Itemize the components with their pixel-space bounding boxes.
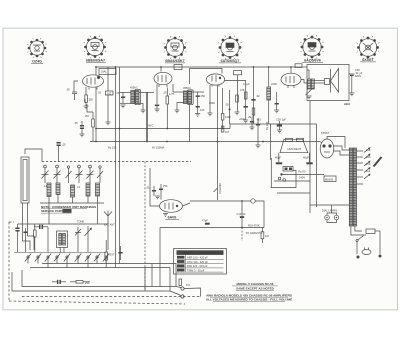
wire pulley to corner [255,201,264,228]
svg-text:C28 1µF: C28 1µF [276,118,286,122]
coil L2 [56,183,60,195]
capacitor C28 [277,121,282,130]
wire top bus drop to V2 plate [160,67,162,72]
capacitor C30 tone [349,74,355,93]
capacitor C40 [15,224,19,238]
mains plug body [362,249,371,254]
svg-text:240: 240 [366,148,371,152]
wire gang bottoms to ground rail [48,197,50,204]
svg-text:P.U.: P.U. [186,283,191,287]
ground C28 [277,130,282,133]
lamp L2 [334,215,339,220]
tube socket V5 6AQ5/6V6 [301,36,324,59]
svg-text:AE3: AE3 [344,102,350,106]
svg-text:TRIM 3 - 30 pF: TRIM 3 - 30 pF [187,268,205,272]
wire V3 to volume long vertical [217,85,219,196]
capacitor C1 ant [57,142,61,162]
svg-text:MAINS: MAINS [325,178,333,182]
svg-text:AVC: AVC [148,124,153,128]
box speaker housing [307,65,349,101]
node junction [229,108,231,110]
wire loop leads down [22,203,24,241]
wire mains drop right [379,235,381,254]
svg-text:6X5GT: 6X5GT [321,131,330,135]
box C21 [234,71,242,75]
svg-text:MODEL 5 CHASSIS RC-56: MODEL 5 CHASSIS RC-56 [237,282,274,286]
wire avc to heater tail [95,129,97,142]
resistor R17 [261,232,264,239]
capacitor C44 [118,246,122,260]
switch W9 [103,254,109,262]
resistor R23 bottom [76,281,83,284]
svg-text:6V 150MA: 6V 150MA [152,146,164,150]
wire IFT1 sec bottom [139,103,143,110]
wire OPT to voice coil [314,80,324,82]
wire left edge vertical [270,158,272,188]
box shield can L6 [57,231,68,248]
svg-text:6AV6: 6AV6 [168,216,177,220]
wire link bus A [42,263,176,265]
resistor R22 right [105,252,108,260]
wire switch drop 48 [47,258,49,268]
variable capacitor CB [54,165,61,183]
wire grid tap vertical [241,201,243,228]
coil L7 [63,234,66,246]
svg-text:SAME EXCEPT AS NOTED: SAME EXCEPT AS NOTED [236,286,275,290]
wire switch drop 78 [77,258,79,264]
svg-text:.01: .01 [146,186,150,190]
wire loop lead to network [23,241,31,250]
ground IFT1 [141,110,146,113]
svg-text:Ry 150: Ry 150 [265,121,269,130]
coil IFT1 primary [131,91,135,104]
wire V4a plate to drive line [183,203,191,206]
wire gang ground rail [40,202,104,204]
wire HT top tap [327,137,345,149]
ground V1 cathode [84,103,89,109]
wire fuse to drop [379,231,381,235]
wire ext ant down [107,222,109,250]
svg-text:455KC: 455KC [183,86,191,90]
wire switch drop 88 [87,258,89,268]
capacitor C45 bottom [52,280,66,284]
wire box drop [237,75,239,112]
capacitor C41 [23,228,27,238]
switch W1 [25,254,31,262]
table rows [177,255,224,272]
wire OPT top lead [307,70,309,79]
resistor R14 [252,108,255,115]
ground IFT2 pri [175,110,180,113]
svg-text:47pF: 47pF [202,219,208,223]
svg-text:EXT: EXT [110,253,115,257]
svg-text:600V: 600V [355,74,361,78]
coil L1 aerial [47,183,51,197]
wire switch drop 97 [96,258,98,264]
ground R12 [235,112,240,115]
box mains input [324,176,336,182]
svg-text:GANGED CONDENSERS: GANGED CONDENSERS [181,251,218,255]
wire lamps wiring [327,213,337,215]
tube socket V1 OZ4G [28,39,47,58]
wire bus to rectifier [320,142,322,144]
svg-text:.05: .05 [66,88,70,92]
switch W2 [35,254,41,262]
resistor R24 terminal [179,279,182,286]
wire transformer bottom to switch [351,226,366,235]
svg-text:6AQ5/6V6: 6AQ5/6V6 [304,59,321,63]
trimmer T3 [75,227,81,238]
ground C13 [195,114,200,117]
node heater dots [95,141,264,143]
tube socket V4 6AT6/6SQ7 [219,36,242,59]
wire screen vertical x115 [115,67,117,268]
mains voltage selector bar [374,157,382,167]
wire avc jog [87,104,93,112]
svg-text:OZ4G: OZ4G [32,60,42,64]
svg-text:100K: 100K [225,115,231,119]
coil OPT secondary [311,79,314,89]
svg-text:150: 150 [89,98,94,102]
wire choke leads [268,67,270,87]
coil IFT1 secondary [135,91,139,104]
svg-text:100: 100 [200,108,205,112]
wire cluster drops [17,238,19,252]
capacitor C13 [196,102,200,114]
svg-text:ALL VOLTAGES MEASURED TO CHASS: ALL VOLTAGES MEASURED TO CHASSIS - FULL … [206,298,292,302]
ground V2 cathode [155,106,160,112]
wire aerial line left of V1 [74,81,78,92]
wire gang link dashed vertical [144,162,146,291]
node AVC dots [95,128,223,130]
wire IFT1 pri top lead [120,91,131,93]
lamp L1 [325,215,330,220]
wire long det verticals [149,168,151,199]
ground v2 [243,120,248,123]
capacitor C4 grid [72,92,77,100]
svg-text:HUM NEUT: HUM NEUT [288,147,302,151]
wire V2 cathode down [156,84,158,104]
capacitor C3 avc [80,121,84,134]
ground C17 [155,196,160,199]
dial drive pulley [251,199,255,203]
ground C26 [274,110,279,113]
variable capacitor trimmer T1 [66,166,72,183]
ext speaker terminal 1 [181,287,184,290]
wire heater bus [90,141,320,143]
wire cluster top rail [18,223,109,225]
ground C28a [256,145,261,148]
svg-text:Ry 150: Ry 150 [108,146,117,150]
wire nested line 1 [22,270,165,287]
wire switch drop 38 [37,258,39,264]
antenna ext symbol [104,211,112,223]
wire loop top lead [25,149,42,162]
wire gang to cluster links [48,203,50,224]
switch W3 [45,254,51,262]
coil OPT primary [308,79,311,89]
tube socket V2 6BE6/6SA7 [84,36,106,58]
tube V1a grid cap dot [97,76,100,79]
svg-text:NOTE : CONDENSER UNIT MARKIN: NOTE : CONDENSER UNIT MARKINGS [41,205,96,209]
wire trapezoid drops [278,153,280,162]
switch arrow S1a [85,226,93,238]
transformer T1 secondary winding [353,148,356,226]
svg-text:2M: 2M [85,114,89,118]
arrow tap C [364,161,371,167]
svg-text:DIAL LAMPS: DIAL LAMPS [322,209,337,213]
switch W5 [64,254,70,262]
svg-text:Ry 60: Ry 60 [299,170,306,174]
tube V5a electrodes [285,77,287,83]
svg-text:+16: +16 [257,118,262,122]
capacitor C16 coupling [152,186,156,196]
switch W6 [75,254,81,262]
wire IFT1 pri bottom lead [120,102,131,104]
svg-text:AER 150 - 420 pF: AER 150 - 420 pF [187,256,208,260]
capacitor C6 screen bypass [121,92,125,103]
box 165 on bus [174,65,182,70]
tube V4a 6AV6 envelope [160,200,183,213]
box hum pot [283,167,293,172]
svg-text:C19 .01: C19 .01 [237,212,247,216]
wire link bus B [30,267,170,269]
tube V1a converter envelope [83,75,104,87]
mains cord ends [357,256,360,259]
resistor R5 screen [166,96,169,104]
arrow tap D [364,167,371,173]
wire dial drive line [190,200,251,202]
capacitor C12 diode [196,92,200,102]
rectifier plates [322,144,325,147]
box IFT1 can [135,89,141,104]
loop antenna frame [21,157,29,203]
pilot lamp small [283,179,286,182]
svg-text:1M: 1M [265,234,269,238]
capacitor C27 [250,121,254,123]
ext speaker terminal 2 [181,295,184,298]
wire top bus drop to V1 plate [95,67,97,75]
svg-text:40µF: 40µF [303,156,309,160]
wire dashed test lead [241,228,243,242]
rectifier V6a envelope [320,139,334,158]
wire volume line down [217,196,219,200]
box IFT2 can [188,90,194,105]
wire 2nd drop [316,124,318,207]
capacitor C34 filter [306,162,312,164]
wire terminal feeds [176,287,181,288]
svg-text:40µF: 40µF [275,156,281,160]
resistor R8 diode load [221,114,224,121]
wire dropper x258 [257,118,259,145]
resistor R1 cathode [85,95,88,103]
tube socket V6 6X5GT [357,37,379,59]
box fuse F1 [366,229,375,234]
table first column cells [177,256,185,272]
wire switch drop [356,242,358,255]
wire bottom mid verticals [144,268,146,292]
wire R23 leads [70,281,76,283]
svg-text:6BA6/6SK7: 6BA6/6SK7 [165,59,184,63]
variable capacitor trimmer T2 [97,166,103,183]
variable capacitor CD [87,165,94,183]
ground V3 [208,113,213,116]
box C31 [286,138,293,141]
wire dropper x270 [270,124,272,160]
wire right col [105,260,107,268]
coil L3 osc [71,185,75,197]
wire V1 down long vertical [95,87,97,129]
switch W4 [54,254,60,262]
svg-text:R16 470K: R16 470K [248,223,260,227]
wire IFT2 sec top [192,91,204,93]
box OPT label [295,64,302,68]
table frame [174,249,227,275]
wire bus B corner down [169,268,171,292]
wire bold shielded lead down [146,92,148,141]
variable capacitor CA [42,165,49,183]
tube V2a electrodes [157,76,159,82]
wire speaker box drop [309,101,311,214]
wire chassis dashed bottom 1 [22,296,201,298]
wire nested line 2 [12,272,165,291]
capacitor C33 filter [276,162,282,164]
speaker cone [330,69,332,93]
svg-text:OSC 110 - 320 pF: OSC 110 - 320 pF [187,260,208,264]
wire mains lower line [274,180,310,182]
svg-text:+8µF: +8µF [239,117,245,121]
resistor R2 AVC [92,119,95,127]
node x115 [115,66,117,68]
node junctions on run [241,200,243,228]
svg-text:200: 200 [366,162,371,166]
wire avc vertical [229,90,231,124]
svg-text:.02: .02 [98,91,102,95]
ground C3 [80,134,85,137]
svg-text:220K: 220K [271,82,277,86]
svg-text:6BE6/6SA7: 6BE6/6SA7 [86,59,105,63]
coil IFT2 primary [183,91,187,104]
tube V3a det/AF envelope [206,74,224,85]
wire IFT2 sec bottom long [189,104,191,142]
wire top bus drop to V5 plate [290,67,292,74]
svg-text:.05: .05 [225,103,229,107]
tube V2a IF amp envelope [154,72,172,84]
wire screen vertical [119,67,121,264]
wire bus A corner down [175,264,177,287]
svg-text:240V: 240V [299,176,305,180]
speaker field trapezoid assembly [280,139,308,152]
wire lamp feed [310,204,349,206]
svg-text:PAD 420 - 610 pF: PAD 420 - 610 pF [187,264,208,268]
coil RF choke [267,87,271,100]
wire V3 plate vertical [209,85,211,113]
table header bar [177,250,224,255]
switch S2 mains [356,236,364,242]
wire dropper x252 [251,118,253,127]
wire grid to V2 [147,91,154,93]
svg-text:VOLUME: VOLUME [218,183,222,194]
capacitor C26 [275,92,279,110]
svg-text:.05: .05 [62,143,66,147]
wire AVC bus [96,128,230,130]
variable capacitor CC [76,165,83,183]
box dial assembly label [99,69,116,75]
wire V5 plate to OPT [301,80,308,84]
wire V1 bottom to cathode parts [85,87,87,95]
resistor hum tiny [278,177,280,179]
svg-text:110: 110 [366,169,371,173]
capacitor C23 [244,106,248,108]
svg-text:220: 220 [366,155,371,159]
arrow tap B [364,154,371,160]
wire avc to heater bus [92,138,94,142]
svg-text:6AT6/6SQ7: 6AT6/6SQ7 [221,59,240,63]
transformer T1 primary winding [349,148,352,226]
wire rect anode taps [334,146,350,150]
svg-text:DIAL: DIAL [101,70,107,74]
arrow OPT adjust [306,88,314,96]
wire drop v3 [253,67,255,124]
capacitor C18 series [205,223,210,225]
switch W7 [85,254,91,262]
wire switch drop 57 [56,258,58,264]
box C32 [297,138,304,141]
resistor R19 [34,230,37,237]
switch W8 [94,254,100,262]
socket pin ticks [27,35,380,59]
ground C30 [349,93,354,96]
box part number [63,209,72,213]
ground C6 [121,105,126,108]
wire V3 plate right [225,80,247,82]
svg-text:TONE: TONE [77,220,84,224]
wire mid horizontal run [160,227,264,229]
wire drop v2 [245,81,247,121]
coil L4 [86,183,90,196]
wire IFT2 pri bottom lead [177,103,183,111]
svg-text:250K: 250K [209,101,215,105]
wire IFT2 sec top n-path [190,69,223,85]
wire B+ top bus [96,66,296,68]
table row texts [187,256,208,273]
resistor R13 [244,92,247,99]
node heater junction [280,173,282,175]
tube socket V3 6BA6/6SK7 [164,37,186,59]
capacitor C42 horizontal [34,225,48,229]
svg-text:250: 250 [163,184,168,188]
capacitor C28a [256,124,260,126]
wire lamp line upper [277,192,310,194]
chassis dashed outline left [8,222,10,301]
svg-text:.02: .02 [256,94,260,98]
capacitor C19 [240,216,244,218]
resistor R12 [236,95,239,102]
node bus junction dots [95,66,292,68]
wire switch drop 106 [105,258,107,264]
wire gang dashed link [42,161,191,163]
capacitor C24 [251,99,255,101]
wire hum pot return [271,171,297,188]
wire osc section vertical [107,67,109,91]
speaker voice coil [325,79,330,85]
resistor R9 AVC [221,126,224,132]
capacitor C17 [159,184,163,200]
wire R17 leads [261,228,263,232]
arrow tap A [364,147,371,153]
wire switch drop 67 [66,258,68,268]
box padder value [106,91,114,95]
